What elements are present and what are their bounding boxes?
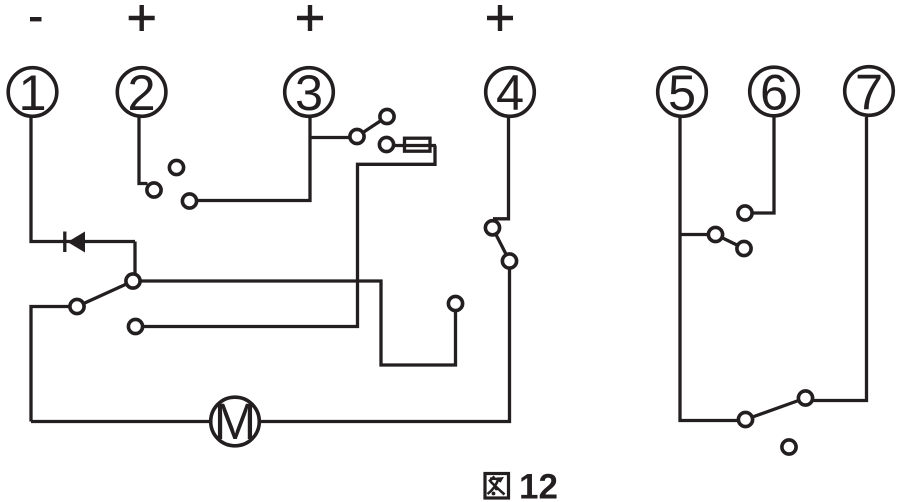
switch S1 blade (closed, node A to node B)	[77, 281, 133, 307]
contact fuse side	[379, 137, 393, 151]
contact S5 common	[708, 227, 722, 241]
switch S4 blade	[493, 228, 510, 261]
caption number 12	[519, 468, 558, 502]
terminal 7	[845, 63, 894, 120]
terminal 5	[658, 64, 707, 121]
polarity plus above terminal 2	[129, 5, 155, 31]
polarity minus above terminal 1	[30, 17, 42, 21]
contact S3 blade tip	[380, 109, 394, 123]
polarity plus above terminal 3	[297, 5, 323, 31]
contact S5 blade tip	[737, 241, 751, 255]
contact terminal 2 common	[147, 183, 161, 197]
contact S4 lower	[502, 254, 516, 268]
switch S3 blade	[357, 117, 387, 137]
contact S4 upper	[485, 221, 499, 235]
wire terminal 1 down to diode	[31, 117, 135, 242]
contact S7 common	[738, 412, 752, 426]
contact throw (lower)	[128, 319, 142, 333]
wire contact to fuse	[390, 144, 436, 147]
wire diode to switch common node	[133, 242, 136, 276]
svg-text:2: 2	[128, 64, 156, 121]
contact terminal 6	[738, 206, 752, 220]
switch S5 blade	[716, 235, 745, 249]
svg-text:4: 4	[496, 64, 524, 121]
wire terminal 3 branch to switch S3	[310, 136, 355, 139]
contact node A	[126, 274, 140, 288]
bottom rail to motor and terminal 4 branch	[31, 261, 510, 422]
svg-text:6: 6	[760, 64, 788, 121]
terminal 4	[486, 64, 535, 121]
contact floating bottom	[782, 440, 796, 454]
wire terminal 7 down	[806, 117, 867, 401]
terminal 1	[8, 64, 57, 121]
contact S3 common	[350, 129, 364, 143]
terminal 2	[117, 64, 166, 121]
terminal 3	[285, 64, 334, 121]
wire terminal 5 branch to contact	[680, 233, 714, 236]
contact floating upper	[169, 160, 183, 174]
terminal 6	[750, 64, 799, 121]
wire node A to right (to lower-right hook)	[133, 281, 456, 365]
contact to terminal 3	[182, 194, 196, 208]
svg-text:5: 5	[668, 64, 696, 121]
wire terminal 4 down	[493, 117, 509, 219]
switch S7 blade	[746, 398, 806, 420]
wire node B to left rail	[31, 307, 80, 422]
motor M	[211, 393, 260, 450]
polarity plus above terminal 4	[487, 5, 513, 31]
contact node B	[70, 299, 84, 313]
svg-text:12: 12	[519, 468, 558, 502]
diode D1 (cathode bar, arrow pointing left)	[65, 232, 85, 253]
fuse FU1	[405, 138, 431, 151]
wire terminal 3 down to contact row	[192, 117, 310, 201]
contact S7 to terminal 7	[798, 391, 812, 405]
wire terminal 6 down to contact	[748, 117, 774, 213]
svg-text:3: 3	[295, 64, 323, 121]
wire terminal 5 down	[680, 117, 742, 421]
caption character tu (figure)	[485, 474, 509, 499]
wire throw contact to fuse riser	[136, 146, 436, 327]
svg-text:7: 7	[855, 63, 883, 120]
wire terminal 2 down	[139, 117, 148, 184]
svg-text:M: M	[214, 393, 256, 450]
contact hook end	[448, 296, 462, 310]
svg-text:1: 1	[18, 64, 46, 121]
